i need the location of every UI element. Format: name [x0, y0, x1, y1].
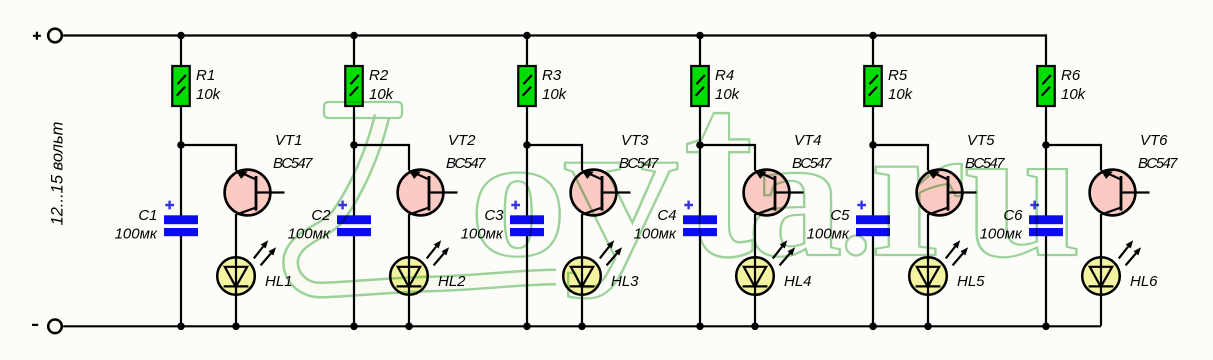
svg-text:t: t	[684, 32, 754, 311]
svg-text:y: y	[563, 77, 680, 299]
svg-text:R3: R3	[542, 67, 562, 84]
svg-text:R2: R2	[369, 67, 389, 84]
svg-text:a: a	[748, 99, 843, 293]
svg-text:10k: 10k	[196, 86, 222, 103]
svg-text:R6: R6	[1061, 67, 1081, 84]
svg-text:C1: C1	[138, 207, 157, 224]
svg-text:r: r	[870, 84, 966, 297]
svg-text:VT6: VT6	[1140, 132, 1168, 149]
svg-text:o: o	[469, 100, 567, 293]
svg-text:R5: R5	[888, 67, 908, 84]
svg-text:u: u	[964, 89, 1082, 296]
svg-text:10k: 10k	[369, 86, 395, 103]
svg-text:HL6: HL6	[1130, 273, 1158, 290]
svg-text:R1: R1	[196, 67, 215, 84]
svg-text:VT1: VT1	[275, 132, 303, 149]
svg-text:12...15 вольт: 12...15 вольт	[49, 122, 67, 226]
svg-text:100мк: 100мк	[115, 226, 158, 243]
svg-text:BC547: BC547	[273, 155, 313, 172]
svg-text:BC547: BC547	[1138, 155, 1178, 172]
